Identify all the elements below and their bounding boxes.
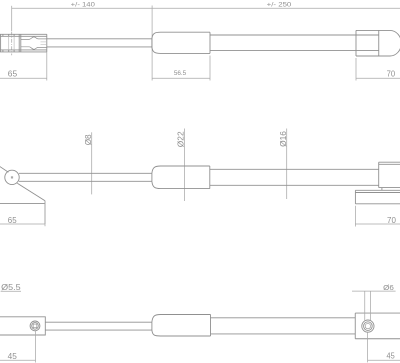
thread line bottom with runout wave xyxy=(21,47,47,50)
cylinder body right face (side view) xyxy=(209,166,211,189)
bracket pin boss circle xyxy=(5,170,19,184)
outer tube (top view) xyxy=(210,34,379,36)
mounting plate (side view) xyxy=(354,190,356,204)
piston rod (top view) xyxy=(47,38,152,40)
clevis fork left end xyxy=(0,34,2,52)
outer tube (side view) xyxy=(210,168,379,170)
screw tick under block xyxy=(381,188,383,191)
dimension 45 (bottom right) xyxy=(368,332,400,362)
bracket upper edge xyxy=(0,166,8,172)
svg-text:+/- 140: +/- 140 xyxy=(71,1,95,8)
bracket base line xyxy=(0,203,45,205)
svg-text:70: 70 xyxy=(387,69,396,79)
svg-text:70: 70 xyxy=(387,215,396,225)
clevis fork slot faces xyxy=(18,34,20,52)
cylinder body end cap (top view) xyxy=(152,32,210,39)
dimension 65 (middle view) xyxy=(0,201,45,227)
svg-text:+/- 250: +/- 250 xyxy=(267,1,292,8)
clevis fork inner lines xyxy=(0,35,47,37)
diameter leader Ø8 xyxy=(91,132,93,194)
dimension 45 (bottom left) xyxy=(0,331,36,363)
diameter leader Ø16 xyxy=(286,129,288,200)
svg-text:Ø8: Ø8 xyxy=(84,134,93,145)
dimension 70 (middle view) xyxy=(355,206,400,227)
right mounting plate (bottom view) xyxy=(354,313,356,339)
dimension Ø6 leader xyxy=(352,291,396,320)
svg-text:45: 45 xyxy=(8,351,17,361)
svg-text:Ø5.5: Ø5.5 xyxy=(1,282,21,292)
clevis fork outer lines xyxy=(0,33,47,35)
screw head right xyxy=(362,320,374,332)
piston rod (bottom view) xyxy=(45,321,152,323)
right mounting plate (top view, rounded end clipped) xyxy=(355,30,357,56)
cylinder body end cap (bottom view) xyxy=(152,315,211,323)
svg-text:65: 65 xyxy=(8,215,17,225)
thread line top with runout wave xyxy=(21,37,47,40)
left mounting plate (bottom view) xyxy=(0,317,45,335)
bracket right edge xyxy=(44,201,46,224)
bracket diagonal edge xyxy=(17,183,45,201)
clevis pin hole edges xyxy=(8,34,10,52)
dimension line +/-140 and +/-250 xyxy=(12,6,400,81)
clevis end face xyxy=(46,34,48,52)
screw head left xyxy=(30,321,40,331)
clevis pin silhouette through slot xyxy=(9,36,14,50)
cylinder body right face xyxy=(209,32,211,53)
svg-text:65: 65 xyxy=(8,69,18,79)
clevis pin centerline xyxy=(11,32,13,56)
cylinder body end cap (side view) xyxy=(152,166,210,173)
svg-text:56.5: 56.5 xyxy=(174,70,187,77)
bracket pin xyxy=(11,176,13,178)
svg-text:Ø22: Ø22 xyxy=(177,131,186,147)
svg-text:45: 45 xyxy=(387,351,395,361)
dimension 70 (top view) xyxy=(356,58,400,81)
clevis pin extension line xyxy=(11,6,13,31)
svg-text:Ø6: Ø6 xyxy=(383,283,394,292)
diameter leader Ø22 xyxy=(184,129,186,202)
outer tube (bottom view) xyxy=(211,317,356,319)
svg-text:Ø16: Ø16 xyxy=(279,131,288,147)
piston rod (side view) xyxy=(19,172,152,174)
thread root lines xyxy=(41,41,47,43)
block edge seen from above xyxy=(378,30,380,56)
end block (side view) xyxy=(378,162,380,187)
cylinder body right face (bottom view) xyxy=(210,315,212,337)
dimension 56.5 xyxy=(152,56,210,81)
dimension 65 (top view) xyxy=(0,52,47,81)
